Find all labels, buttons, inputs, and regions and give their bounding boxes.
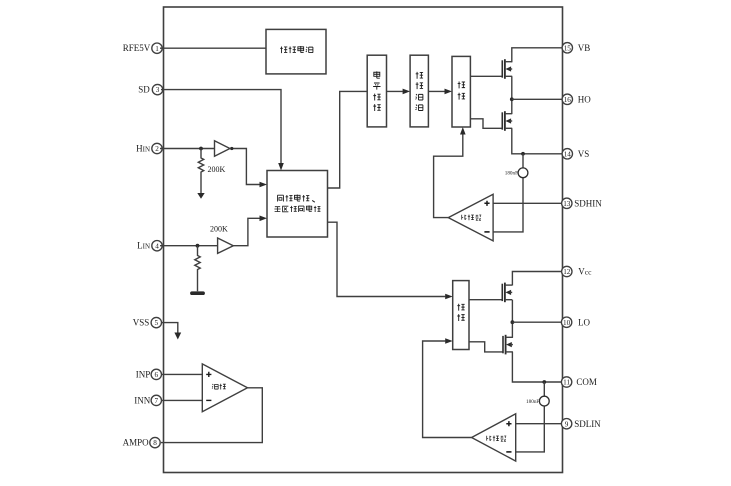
wire source V2 to comparator2 minus input: [516, 406, 545, 452]
wire level shift to pulse filter: [387, 89, 411, 95]
svg-text:VSS: VSS: [133, 318, 150, 328]
transistor Q1 (high-side upper MOSFET): [502, 59, 512, 79]
svg-text:8: 8: [153, 439, 157, 447]
svg-text:180nF: 180nF: [505, 171, 518, 177]
block U3 level shift (dian-ping-wei-yi): [367, 55, 386, 127]
wire driver2 to Q4 gate: [469, 342, 503, 352]
pin 4 LIN: [137, 241, 162, 251]
pin 5 VSS: [133, 317, 162, 327]
source V2 180nF reference: [526, 396, 549, 406]
pin 15 VB: [562, 43, 590, 53]
wire driver1 to Q1 gate: [470, 75, 502, 77]
node HIN/R1 junction: [199, 147, 203, 151]
wire Q4 source to COM pin11: [512, 352, 562, 382]
svg-text:10: 10: [563, 319, 571, 327]
wire latch block to low-side driver: [328, 222, 453, 299]
svg-text:LIN: LIN: [137, 241, 150, 251]
wire RFE5V pin1 to linear supply: [160, 47, 266, 49]
wire driver2 to Q3 gate: [469, 299, 502, 301]
ground bar below R2: [192, 291, 203, 295]
wire Q3 source to Q4 drain rail: [511, 300, 513, 338]
svg-text:13: 13: [563, 200, 571, 208]
svg-text:5: 5: [155, 319, 159, 327]
wire comparator2 output to low-side driver: [423, 338, 472, 437]
pin 6 INP: [136, 369, 162, 379]
node HO junction: [510, 97, 514, 101]
ground arrow VSS: [174, 333, 181, 340]
op-amp U7 (yun-fang): [202, 364, 247, 412]
pin 11 COM: [561, 377, 597, 387]
source V1 180nF reference: [505, 168, 528, 178]
transistor Q4 (low-side lower MOSFET): [503, 335, 513, 355]
wire HIN buffer output to latch block: [230, 147, 267, 187]
svg-text:14: 14: [564, 150, 572, 158]
svg-text:9: 9: [565, 420, 569, 428]
svg-text:200K: 200K: [208, 165, 226, 174]
wire HIN pin2 to buffer: [160, 148, 215, 150]
node VS junction: [521, 152, 525, 156]
block U1 linear power supply (xian-xing-dian-yuan): [266, 29, 326, 74]
svg-text:16: 16: [564, 96, 572, 104]
wire LIN buffer output to latch block: [233, 216, 267, 246]
wire op-amp output to AMPO pin8: [161, 388, 262, 443]
pin 16 HO: [562, 94, 591, 104]
ground arrow below R1: [197, 193, 204, 199]
svg-text:15: 15: [564, 44, 572, 52]
pin 14 VS: [562, 149, 589, 159]
buffer A2 (LIN input buffer): [218, 238, 234, 253]
wire COM node to source V2: [543, 382, 545, 396]
comparator U8 (bi-jiao-qi, high side): [448, 194, 493, 241]
svg-text:200K: 200K: [210, 225, 228, 234]
transistor Q3 (low-side upper MOSFET): [502, 283, 512, 303]
svg-text:SDLIN: SDLIN: [574, 419, 601, 429]
wire INP pin6 to op-amp: [161, 373, 202, 375]
node LIN/R2 junction: [196, 244, 200, 248]
block U4 pulse filter (mai-chong-lv-bo): [410, 55, 428, 127]
svg-text:VS: VS: [578, 149, 590, 159]
resistor R1 200K: [198, 149, 225, 194]
svg-text:4: 4: [155, 242, 159, 250]
wire Vcc rail to pin12: [512, 272, 562, 286]
buffer A1 (HIN input buffer): [215, 141, 230, 156]
wire latch block to level shift: [328, 91, 368, 188]
wire comparator1 output to high-side driver: [434, 127, 466, 218]
pin 3 SD: [138, 84, 162, 94]
svg-text:6: 6: [155, 371, 159, 379]
svg-text:SDHIN: SDHIN: [574, 199, 602, 209]
wire comparator1 plus input to SDHIN pin13: [493, 202, 562, 204]
wire LO to pin10: [512, 321, 562, 323]
wire LIN pin4 to buffer: [160, 245, 218, 247]
svg-text:7: 7: [155, 397, 159, 405]
svg-text:INN: INN: [134, 395, 150, 405]
block U5 high-side driver (qu-dong): [452, 56, 470, 127]
svg-text:LO: LO: [578, 317, 590, 327]
svg-text:INP: INP: [136, 369, 151, 379]
svg-text:COM: COM: [576, 377, 597, 387]
pin 13 SDHIN: [562, 198, 603, 208]
pin 2 HIN: [136, 143, 162, 153]
wire VB rail to pin15: [512, 48, 563, 62]
pin 8 AMPO: [123, 437, 161, 447]
pin 10 LO: [561, 317, 590, 327]
IC outline border: [164, 7, 563, 473]
pin 1 RFE5V: [123, 43, 162, 53]
svg-text:HIN: HIN: [136, 144, 150, 154]
wire SD pin3 to latch block top: [161, 90, 284, 171]
resistor R2 200K: [195, 225, 228, 292]
svg-text:RFE5V: RFE5V: [123, 43, 151, 53]
svg-text:Vcc: Vcc: [578, 267, 592, 277]
svg-text:2: 2: [155, 145, 159, 153]
wire VS node to source V1: [522, 154, 524, 168]
wire INN pin7 to op-amp: [161, 399, 202, 401]
wire VSS pin5 to ground: [161, 323, 178, 334]
pin 7 INN: [134, 395, 161, 405]
svg-text:SD: SD: [138, 85, 150, 95]
node COM junction: [542, 380, 546, 384]
wire source V1 to comparator1 minus input: [493, 178, 523, 232]
block U6 low-side driver (qu-dong): [453, 281, 469, 350]
svg-text:180nF: 180nF: [526, 399, 539, 405]
transistor Q2 (high-side lower MOSFET): [502, 111, 512, 131]
svg-text:VB: VB: [578, 43, 591, 53]
svg-text:3: 3: [156, 86, 160, 94]
svg-text:1: 1: [155, 45, 159, 53]
svg-text:11: 11: [563, 379, 570, 387]
pin 9 SDLIN: [561, 419, 601, 429]
node LO junction: [511, 320, 515, 324]
wire Q2 source to VS pin14: [512, 128, 563, 154]
comparator U9 (bi-jiao-qi, low side): [472, 414, 516, 461]
svg-text:12: 12: [563, 268, 571, 276]
block U2 latch circuit / dead-time circuit: [267, 171, 328, 238]
svg-text:AMPO: AMPO: [123, 438, 150, 448]
wire comparator2 plus input to SDLIN pin9: [516, 423, 562, 425]
pin 12 Vcc: [562, 266, 593, 276]
wire Q1 source to Q2 drain rail: [511, 76, 513, 114]
wire driver1 to Q2 gate: [471, 119, 503, 129]
wire HO to pin16: [512, 98, 563, 100]
wire pulse filter to high-side driver: [428, 89, 452, 95]
svg-text:HO: HO: [578, 95, 591, 105]
